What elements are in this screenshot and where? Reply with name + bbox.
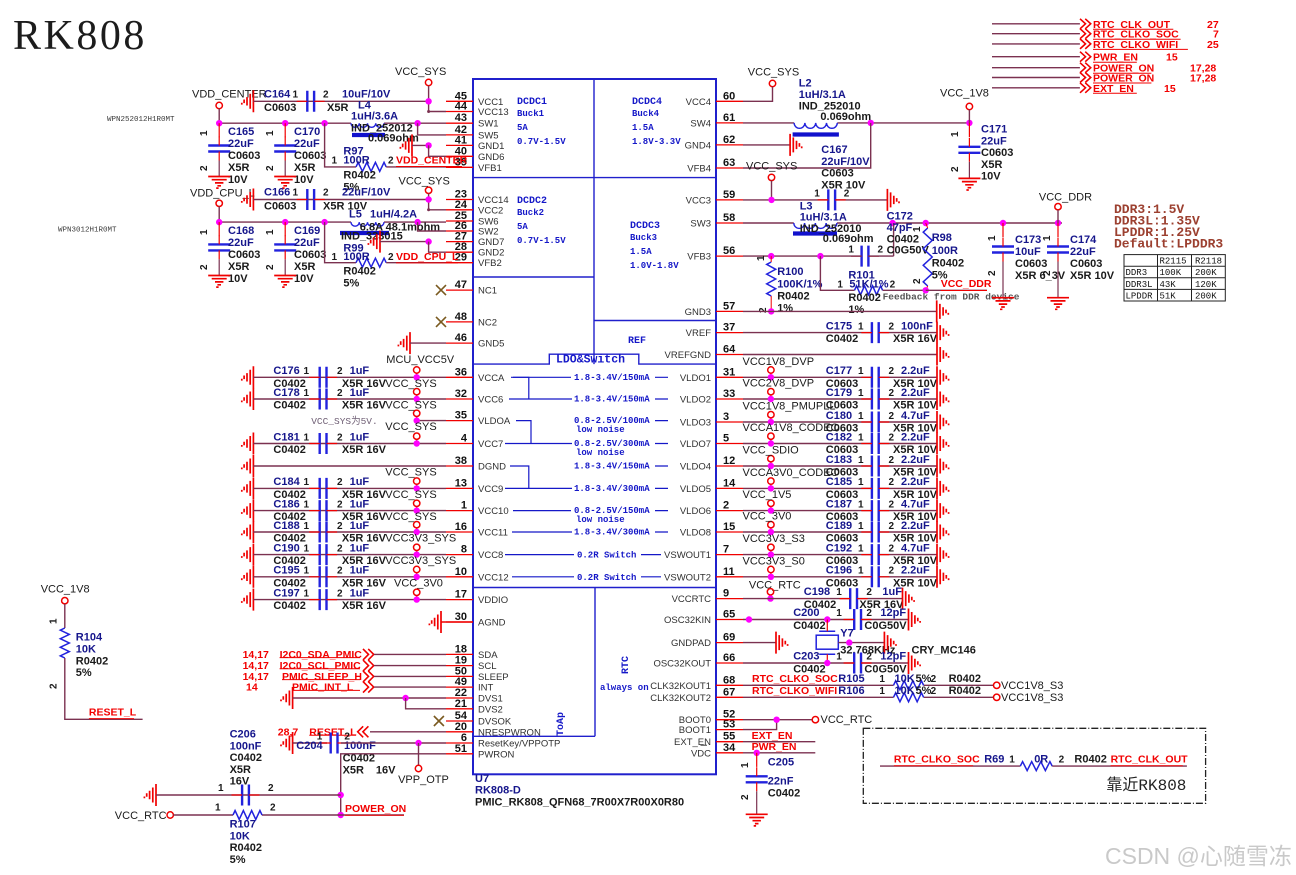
svg-text:AGND: AGND [478,618,506,629]
svg-text:63: 63 [723,157,735,169]
svg-text:R0402: R0402 [777,291,809,303]
ground pin 62 [743,144,790,146]
wire C181 row [253,443,446,445]
svg-text:VCC_DDR: VCC_DDR [941,278,992,290]
svg-text:C0603: C0603 [228,150,260,162]
svg-text:2: 2 [337,477,343,488]
svg-text:5%: 5% [230,854,246,866]
svg-text:C168: C168 [228,225,254,237]
ground C165 [218,161,220,177]
svg-text:VCC1V8_S3: VCC1V8_S3 [1001,692,1063,704]
svg-text:5%: 5% [916,685,932,697]
svg-text:VLDO3: VLDO3 [680,418,711,429]
svg-text:56: 56 [723,245,735,257]
ground C197 row [242,589,254,611]
ground pin 64 [937,344,949,366]
svg-text:X5R: X5R [228,162,249,174]
svg-text:2: 2 [987,270,998,276]
svg-text:200K: 200K [1195,268,1217,278]
svg-text:2: 2 [1059,755,1065,766]
wire C189 row [743,531,871,533]
svg-text:2: 2 [931,686,937,697]
svg-text:SW5: SW5 [478,130,499,141]
svg-text:X5R 16V: X5R 16V [342,400,387,412]
svg-text:C177: C177 [826,365,852,377]
wire VDD_CPU_L net row [219,221,351,223]
capacitor C198 [850,588,857,609]
wire C200 row [743,619,854,621]
svg-text:POWER_ON: POWER_ON [345,803,406,815]
svg-text:C174: C174 [1070,234,1097,246]
capacitor C192 [872,544,879,565]
svg-text:100nF: 100nF [344,740,376,752]
power flag VCC_SYS left col [414,410,420,416]
wire pin 56 VFB3 row [743,255,862,257]
svg-text:VCC8: VCC8 [478,550,503,561]
resistor R107 [233,811,262,820]
svg-text:22uF: 22uF [1070,246,1096,258]
capacitor C167 [828,189,835,210]
wire pin 64 row [743,354,937,356]
svg-text:2: 2 [270,803,276,814]
svg-text:VCC_SYS: VCC_SYS [399,175,450,187]
svg-text:VPP_OTP: VPP_OTP [398,774,449,786]
off-page arrow RTC_CLK_OUT [1080,19,1091,29]
wire C179 row [743,398,871,400]
svg-text:1: 1 [858,411,864,422]
svg-text:0.7V-1.5V: 0.7V-1.5V [517,137,566,147]
svg-text:1: 1 [740,762,751,768]
svg-text:1: 1 [858,388,864,399]
svg-text:C0402: C0402 [826,333,858,345]
svg-text:10V: 10V [228,174,248,186]
capacitor C180 [872,412,879,433]
svg-text:VCC3V3_S0: VCC3V3_S0 [743,555,805,567]
svg-text:C203: C203 [793,651,819,663]
svg-text:100R: 100R [932,245,958,257]
svg-text:10V: 10V [294,174,314,186]
svg-text:VCC1V8_PMUPLL: VCC1V8_PMUPLL [743,401,836,413]
svg-text:1uF: 1uF [882,586,902,598]
svg-text:2: 2 [337,566,343,577]
svg-text:GNDPAD: GNDPAD [671,638,711,649]
ground C200 [909,609,921,631]
svg-text:VCC6: VCC6 [478,395,503,406]
capacitor C176 [320,367,327,388]
svg-text:GND6: GND6 [478,152,504,163]
svg-text:DCDC2: DCDC2 [517,196,547,207]
svg-text:VCC_SYS: VCC_SYS [385,378,436,390]
wire pin 57 GND3 row [743,310,937,312]
wire VDD_CPU_L flag stub [218,207,220,223]
svg-text:1: 1 [293,188,299,199]
svg-text:2: 2 [740,794,751,800]
svg-text:47: 47 [455,279,467,291]
svg-text:Buck1: Buck1 [517,109,545,119]
svg-text:2: 2 [866,587,872,598]
wire pin35 row [417,420,446,422]
svg-text:C206: C206 [230,729,256,741]
wire C178 row [253,398,446,400]
wire VDD_CENTER flag stub [218,109,220,124]
wire C196 row [743,576,871,578]
svg-text:REF: REF [628,336,646,347]
svg-text:12pF: 12pF [880,651,906,663]
capacitor C205 [756,753,758,767]
svg-text:R2115: R2115 [1160,257,1187,267]
svg-text:22uF/10V: 22uF/10V [342,187,391,199]
svg-text:11: 11 [723,566,735,578]
wire C187 row [743,510,871,512]
svg-text:1: 1 [848,245,854,256]
svg-text:DCDC3: DCDC3 [630,221,660,232]
ground pin 46 [398,332,410,354]
inductor L4 [351,123,384,127]
svg-text:2: 2 [1042,270,1053,276]
svg-text:Buck3: Buck3 [630,233,657,243]
table DDR resistor values [1124,255,1225,301]
svg-text:PMIC_INT_L: PMIC_INT_L [292,682,354,694]
svg-text:LPDDR: LPDDR [1126,291,1154,301]
svg-text:100R: 100R [343,155,369,167]
svg-text:1: 1 [858,366,864,377]
wire pin 55 [743,741,815,743]
power flag VCC3V3_SYS left col [414,522,420,528]
svg-text:0.2R Switch: 0.2R Switch [577,551,636,561]
svg-text:68: 68 [723,674,735,686]
ground pin 69 [776,632,788,654]
power flag VCC1V8_PMUPLL [768,412,774,418]
svg-text:RTC_CLKO_SOC: RTC_CLKO_SOC [894,754,980,766]
svg-text:ToAp: ToAp [556,712,567,736]
svg-text:DVS2: DVS2 [478,704,503,715]
wire C203 row [743,662,854,664]
svg-text:DCDC4: DCDC4 [632,97,662,108]
wire pin 19 [374,665,446,667]
capacitor C178 [320,389,327,410]
svg-text:2: 2 [889,321,895,332]
svg-text:37: 37 [723,322,735,334]
svg-text:VCCRTC: VCCRTC [672,594,712,605]
svg-text:VCC_RTC: VCC_RTC [749,580,801,592]
svg-text:24: 24 [455,199,468,211]
svg-text:1uH/3.1A: 1uH/3.1A [800,212,847,224]
svg-text:21: 21 [455,698,467,710]
no-connect pin 47 [436,285,446,295]
svg-text:2: 2 [49,683,60,689]
ground C182 [937,433,949,455]
ground C206 row [144,784,156,806]
svg-text:R107: R107 [230,819,256,831]
svg-text:VCC_DDR: VCC_DDR [1039,192,1092,204]
wire pin 59 row [743,199,828,201]
ground C175 [937,322,949,344]
ground C196 [937,566,949,588]
wire C176 row [253,376,446,378]
capacitor C183 [872,456,879,477]
svg-text:12: 12 [723,455,735,467]
svg-text:C166: C166 [264,187,290,199]
svg-text:2.2uF: 2.2uF [901,520,930,532]
svg-text:31: 31 [723,366,735,378]
svg-text:2: 2 [265,165,276,171]
svg-text:0.7V-1.5V: 0.7V-1.5V [517,236,566,246]
svg-text:1.8-3.4V/150mA: 1.8-3.4V/150mA [574,395,650,405]
svg-text:X5R: X5R [327,102,348,114]
svg-text:C197: C197 [273,587,299,599]
svg-text:1.8V-3.3V: 1.8V-3.3V [632,137,681,147]
svg-text:100K: 100K [1160,268,1182,278]
svg-text:1: 1 [304,499,310,510]
svg-text:C173: C173 [1015,234,1041,246]
capacitor C174 [1057,223,1059,237]
svg-text:14,17: 14,17 [243,649,269,661]
ground pin38 row [242,455,254,477]
svg-text:0R: 0R [1034,754,1048,766]
svg-text:SW2: SW2 [478,227,499,238]
svg-text:47pF: 47pF [887,222,913,234]
svg-text:34: 34 [723,742,736,754]
wire VCC_SYS to pins 23 24 [429,194,446,210]
svg-text:1: 1 [49,618,60,624]
svg-text:NRESPWRON: NRESPWRON [478,727,541,738]
power flag VCC3V3_S0 [768,566,774,572]
svg-text:C0402: C0402 [230,752,262,764]
capacitor C187 [872,500,879,521]
svg-text:64: 64 [723,344,736,356]
svg-text:C0402: C0402 [273,444,305,456]
capacitor C175 [872,322,879,343]
svg-text:17,28: 17,28 [1190,73,1216,85]
svg-text:R104: R104 [76,632,103,644]
svg-text:R0402: R0402 [949,685,981,697]
capacitor C173 [1002,223,1004,237]
svg-text:Buck4: Buck4 [632,109,660,119]
capacitor C169 [284,222,286,236]
svg-text:2: 2 [889,366,895,377]
ground pins 27 28 [368,231,380,253]
wire C198 row [743,598,850,600]
svg-text:48: 48 [455,311,467,323]
svg-text:17: 17 [455,589,467,601]
svg-text:SW3: SW3 [690,219,711,230]
svg-text:1: 1 [304,432,310,443]
svg-text:69: 69 [723,632,735,644]
svg-text:VDD_CENTER: VDD_CENTER [192,89,267,101]
wire R104 top [64,604,66,628]
ground pin 30 [429,611,441,633]
svg-text:1uH/3.6A: 1uH/3.6A [351,111,398,123]
svg-text:1: 1 [837,280,843,291]
wire pin 21 [406,698,446,709]
svg-text:VLDO2: VLDO2 [680,395,711,406]
svg-text:always on: always on [600,683,649,693]
svg-text:1uF: 1uF [350,520,370,532]
svg-text:C183: C183 [826,454,852,466]
svg-text:13: 13 [455,477,467,489]
svg-text:32: 32 [455,388,467,400]
svg-text:4.7uF: 4.7uF [901,542,930,554]
svg-text:67: 67 [723,686,735,698]
resistor R98 [923,228,932,286]
svg-text:C171: C171 [981,124,1007,136]
ground pin 57 [937,300,949,322]
resistor R69 [1020,762,1052,771]
wire VCC_DDR stub [1057,210,1059,223]
resistor R97 [325,123,356,167]
svg-text:R0402: R0402 [848,292,880,304]
svg-text:X5R 16V: X5R 16V [893,333,938,345]
resistor R99 [325,222,356,263]
svg-text:SCL: SCL [478,661,496,672]
capacitor C195 [320,566,327,587]
svg-text:VCC3V3_SYS: VCC3V3_SYS [385,533,456,545]
svg-text:X5R: X5R [230,764,251,776]
U7 red pin stubs right [716,101,743,753]
svg-text:1uF: 1uF [350,498,370,510]
svg-text:1.8-3.4V/150mA: 1.8-3.4V/150mA [574,462,650,472]
ground C190 row [242,544,254,566]
svg-text:2: 2 [323,188,329,199]
svg-text:C0603: C0603 [294,150,326,162]
capacitor C165 [218,123,220,137]
power flag VCC1V8_DVP [768,367,774,373]
wire C197 row [253,599,446,601]
svg-text:2: 2 [912,278,923,284]
capacitor C185 [872,478,879,499]
svg-text:100nF: 100nF [230,740,262,752]
capacitor C203 [854,653,861,674]
svg-text:X5R: X5R [981,159,1002,171]
svg-text:2.2uF: 2.2uF [901,365,930,377]
svg-text:VCC_SYS: VCC_SYS [748,67,799,79]
wire C206 row [156,794,341,796]
svg-text:X5R 10V: X5R 10V [1070,270,1115,282]
wire L5 out to pin 26 [418,222,446,231]
svg-text:2: 2 [890,280,896,291]
ground C184 row [242,477,254,499]
resistor R106 [894,693,924,702]
wire pin38 row [253,465,446,467]
svg-text:1: 1 [332,156,338,167]
svg-text:1: 1 [304,543,310,554]
ground C181 row [242,433,254,455]
ground C188 row [242,521,254,543]
svg-text:Buck2: Buck2 [517,208,544,218]
svg-text:VCC_1V5: VCC_1V5 [743,489,792,501]
wire pin 60 to VCC_SYS [743,87,773,102]
svg-text:1uF: 1uF [350,587,370,599]
wire R106 row [743,696,894,698]
wire net RTC_CLKO_WIFI to off-page [992,43,1080,45]
svg-text:4.7uF: 4.7uF [901,498,930,510]
ground near C166 [242,189,254,211]
svg-text:X5R: X5R [294,162,315,174]
svg-text:VCC2V8_DVP: VCC2V8_DVP [743,378,815,390]
wire C188 row [253,531,446,533]
power flag VCC2V8_DVP [768,389,774,395]
svg-text:C205: C205 [768,757,794,769]
svg-text:C184: C184 [273,476,300,488]
power flag unnamed left col [414,589,420,595]
svg-text:C188: C188 [273,520,299,532]
svg-text:C0603: C0603 [821,168,853,180]
wire R107 row [173,814,233,816]
svg-text:43K: 43K [1160,280,1177,290]
svg-text:OSC32KOUT: OSC32KOUT [653,659,711,670]
svg-text:30: 30 [455,611,467,623]
svg-text:X5R 16V: X5R 16V [342,444,387,456]
svg-text:1: 1 [304,366,310,377]
off-page arrow RTC_CLKO_WIFI [1080,39,1091,49]
svg-text:1: 1 [265,130,276,136]
capacitor C189 [872,522,879,543]
svg-text:C0603: C0603 [981,147,1013,159]
svg-text:1%: 1% [777,303,793,315]
svg-text:SDA: SDA [478,650,498,661]
svg-text:1: 1 [879,686,885,697]
svg-text:VCC3V3_SYS: VCC3V3_SYS [385,555,456,567]
resistor R104 [60,628,69,658]
svg-text:2: 2 [866,652,872,663]
svg-text:1: 1 [879,674,885,685]
wire pin 34 [743,752,815,754]
svg-text:1: 1 [199,130,210,136]
svg-text:ResetKey/VPPOTP: ResetKey/VPPOTP [478,739,560,750]
svg-text:1.8-3.4V/300mA: 1.8-3.4V/300mA [574,484,650,494]
svg-text:2: 2 [889,411,895,422]
svg-text:C200: C200 [793,607,819,619]
svg-text:61: 61 [723,112,735,124]
svg-text:2.2uF: 2.2uF [901,387,930,399]
ground C167 [887,189,899,211]
capacitor C177 [872,367,879,388]
svg-text:RK808-D: RK808-D [475,785,521,797]
svg-text:NC1: NC1 [478,286,497,297]
svg-text:51K: 51K [1160,291,1177,301]
svg-text:1: 1 [836,608,842,619]
svg-text:2.2uF: 2.2uF [901,476,930,488]
svg-text:1uF: 1uF [350,387,370,399]
svg-text:EXT_EN: EXT_EN [674,737,711,748]
svg-text:C179: C179 [826,387,852,399]
svg-text:VCCA: VCCA [478,373,505,384]
svg-text:100K/1%: 100K/1% [777,279,822,291]
svg-text:51K/1%: 51K/1% [849,279,888,291]
svg-text:1: 1 [332,252,338,263]
svg-text:2: 2 [758,307,769,313]
svg-text:WPN252012H1R0MT: WPN252012H1R0MT [107,116,175,124]
svg-text:DCDC1: DCDC1 [517,97,547,108]
svg-text:C0402: C0402 [273,400,305,412]
wire C164 row [253,100,428,102]
svg-text:NC2: NC2 [478,317,497,328]
ground crystal [884,632,896,654]
wire pin 61 L2 row [743,122,794,124]
power flag VCC3V3_S3 [768,544,774,550]
svg-text:X5R: X5R [228,261,249,273]
svg-text:C167: C167 [821,144,847,156]
svg-text:SW1: SW1 [478,119,499,130]
wire pin 22 [293,697,446,699]
svg-text:R0402: R0402 [76,655,108,667]
svg-text:22nF: 22nF [768,776,794,788]
svg-text:1: 1 [304,477,310,488]
svg-text:DDR3L: DDR3L [1126,280,1153,290]
svg-text:9: 9 [723,588,729,600]
svg-text:10uF: 10uF [1015,246,1041,258]
svg-text:VLDO7: VLDO7 [680,439,711,450]
